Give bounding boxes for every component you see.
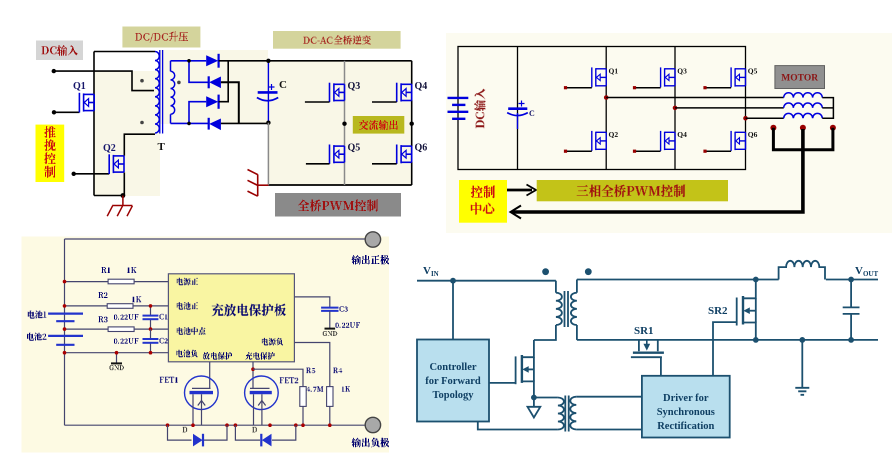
wire diode loop 2 — [235, 425, 295, 440]
transistor FET1 — [185, 376, 219, 410]
wire bridge bottom rail — [268, 184, 411, 186]
node motor terminal 3 — [830, 125, 836, 131]
node bottom rail x=227 — [225, 423, 229, 427]
gate transformer core — [565, 396, 568, 432]
svg-text:Q6: Q6 — [415, 143, 428, 154]
label text GND b — [323, 331, 338, 336]
terminal output negative — [365, 417, 380, 432]
transistor transistor Q5 — [731, 67, 745, 87]
node source junction — [531, 395, 537, 401]
label box MOTOR — [775, 66, 825, 89]
node SR2 source — [753, 337, 759, 343]
svg-text:Q1: Q1 — [73, 81, 86, 92]
wire source to gate transformer — [534, 397, 558, 399]
node secondary top junction — [187, 59, 191, 63]
label text FET2 — [280, 377, 299, 383]
node ground tap — [799, 337, 805, 343]
ground at bridge — [248, 170, 269, 197]
label text R5 — [306, 368, 315, 374]
svg-text:T: T — [158, 141, 166, 153]
wire inductor to vout — [826, 279, 878, 281]
background pale fill rectifier area — [160, 50, 268, 124]
wire bridge right edge — [411, 61, 413, 185]
label text R2 — [99, 292, 108, 298]
label text 充放电保护板 — [212, 304, 286, 317]
resistor R1 — [108, 279, 134, 284]
wire bottom ground node — [94, 195, 124, 197]
block Controller for Forward Topology — [417, 340, 489, 422]
resistor R3 — [108, 327, 134, 332]
transformer T secondary winding — [170, 61, 172, 72]
wire charge gate — [252, 362, 254, 388]
wire D2 output down — [221, 82, 239, 123]
label text C2 — [160, 338, 169, 344]
transistor FET2 — [245, 376, 279, 410]
diode D4 — [209, 119, 221, 131]
wire leg B — [674, 47, 676, 170]
svg-text:Q4: Q4 — [415, 81, 428, 92]
transistor transistor Q5 — [330, 145, 345, 164]
wire diode loop 1 — [168, 425, 228, 440]
label text D b — [252, 427, 256, 433]
background pale fill motor quadrant — [446, 33, 892, 233]
label box control center — [459, 180, 507, 223]
node R2 left — [63, 304, 67, 308]
wire Q1 gate input — [54, 111, 79, 113]
label text 电池1 — [28, 311, 47, 319]
node GND — [115, 351, 119, 355]
wire board to C3 — [294, 297, 329, 307]
node bottom rail x=167.5 — [166, 423, 170, 427]
wire R2 row — [65, 305, 169, 307]
label text 0.22UF b — [114, 338, 139, 344]
node R1 left — [63, 280, 67, 284]
node AC out left — [342, 122, 346, 126]
pin label 电池中点 — [177, 327, 206, 335]
battery DC source — [448, 98, 469, 119]
node cap top — [266, 59, 270, 63]
transformer T primary winding — [155, 52, 159, 134]
wire output positive top — [65, 238, 366, 240]
wire gate to R5 — [253, 369, 303, 386]
pin label 电源正 — [177, 278, 198, 286]
gate transformer right winding — [570, 397, 576, 430]
block Driver for Synchronous Rectification — [642, 376, 730, 438]
svg-text:Q2: Q2 — [609, 130, 619, 139]
svg-text:Controller: Controller — [429, 362, 476, 373]
capacitor C2 — [150, 329, 152, 353]
transistor transistor Q3 — [661, 67, 675, 87]
battery 1 — [48, 314, 83, 322]
label text 制 — [45, 166, 56, 178]
label text 4.7M — [306, 386, 323, 392]
transistor transistor Q1 — [592, 67, 606, 87]
label text 交流输出 — [359, 120, 398, 130]
svg-text:Q2: Q2 — [103, 143, 116, 154]
capacitor plus — [519, 101, 525, 107]
label text DC输入 vertical — [474, 89, 486, 129]
label text R1 — [102, 267, 111, 273]
wire outer rectangle — [458, 47, 746, 170]
svg-text:Q1: Q1 — [609, 67, 619, 76]
label box full bridge PWM control — [275, 193, 401, 217]
node phase C — [743, 116, 748, 121]
svg-text:Synchronous: Synchronous — [657, 407, 715, 418]
svg-text:Rectification: Rectification — [657, 421, 714, 432]
background pale fill push-pull loop — [94, 71, 160, 196]
phase dot primary bottom — [140, 121, 144, 125]
transistor SR2 — [737, 280, 756, 340]
wire Q2 drain to primary bottom — [124, 134, 155, 156]
label text R3 — [99, 316, 108, 322]
label box DC/DC boost — [122, 27, 200, 48]
wire R4 down — [329, 406, 331, 425]
capacitor C curved plate — [507, 113, 528, 116]
label text 0.22UF c — [336, 322, 361, 328]
node vout cap top — [848, 277, 854, 283]
wire diode D2 feed — [189, 61, 209, 83]
terminal output positive — [365, 232, 380, 247]
transistor transistor Q4 — [397, 83, 412, 102]
arrowhead feedback — [511, 206, 522, 219]
wire top rail to transformer — [94, 51, 155, 53]
node DC+ input — [52, 69, 56, 73]
wire R3 row — [65, 328, 169, 330]
node R3 left — [63, 327, 67, 331]
wire motor star point — [822, 98, 833, 119]
svg-text:MOTOR: MOTOR — [781, 74, 818, 84]
node C1 top — [149, 304, 153, 308]
label text 控制 — [471, 186, 495, 199]
wire left rail — [93, 52, 95, 196]
svg-text:Q6: Q6 — [748, 130, 758, 139]
transformer core — [565, 291, 569, 327]
wire output negative bottom — [65, 424, 366, 426]
label text 三相全桥PWM控制 — [577, 185, 686, 198]
transformer secondary top lead — [576, 280, 578, 293]
phase dot secondary — [585, 268, 592, 275]
label text 控 — [45, 152, 56, 164]
svg-text:VOUT: VOUT — [855, 265, 878, 278]
wire R1 row — [65, 281, 169, 283]
node cap bottom — [266, 121, 270, 125]
arrowhead control to PWM — [527, 185, 537, 196]
resistor R4 — [327, 387, 333, 407]
wire Q2 source down — [123, 172, 125, 195]
svg-text:for Forward: for Forward — [425, 376, 481, 387]
node phase A — [604, 95, 609, 100]
node controller tap — [450, 278, 456, 284]
svg-text:Q3: Q3 — [677, 67, 687, 76]
transistor transistor Q1 — [79, 93, 94, 113]
capacitor C plate — [508, 107, 527, 110]
wire motor terminal bracket — [773, 128, 833, 150]
pin label 电源负 — [262, 338, 283, 346]
svg-text:VIN: VIN — [423, 265, 439, 278]
node bottom rail x=329.8 — [328, 423, 332, 427]
label text FET1 — [160, 377, 178, 383]
capacitor C plus sign — [269, 84, 275, 90]
wire gate transformer return — [478, 422, 558, 430]
inductor output — [779, 261, 825, 280]
label text 1K a — [127, 267, 136, 273]
wire R5 down — [302, 406, 304, 425]
label text 挽 — [45, 139, 56, 151]
svg-text:SR1: SR1 — [634, 325, 654, 337]
pin label 充电保护 — [246, 352, 275, 360]
wire capacitor branch leg — [517, 47, 519, 170]
motor winding B — [784, 103, 823, 108]
battery 2 — [48, 336, 83, 345]
transformer secondary bottom lead — [576, 325, 578, 340]
wire phase C — [746, 117, 784, 119]
node phase B — [673, 106, 678, 111]
svg-text:Topology: Topology — [432, 390, 474, 401]
node bottom rail x=235.4 — [234, 423, 238, 427]
transistor transistor Q6 — [397, 145, 412, 164]
transistor transistor Q2 — [109, 154, 124, 174]
node secondary bottom junction — [187, 122, 191, 126]
wire secondary bottom to D4 — [171, 122, 209, 124]
label text 推 — [45, 126, 56, 138]
label box push-pull control — [36, 125, 65, 182]
transformer secondary bottom lead — [170, 114, 172, 123]
ground output — [795, 340, 809, 395]
node Q1 gate input — [52, 110, 56, 114]
label text D a — [183, 427, 188, 433]
wire controller feed — [452, 281, 454, 340]
phase dot primary — [542, 268, 549, 275]
node AC out right — [410, 122, 414, 126]
label text 1K b — [132, 296, 141, 302]
svg-text:Q5: Q5 — [748, 67, 758, 76]
label text 1K c — [342, 386, 350, 392]
node charge gate tap — [251, 367, 255, 371]
background battery protection board panel — [22, 237, 390, 453]
wire C3 to gnd — [329, 311, 331, 328]
wire battery negative row — [65, 352, 169, 354]
wire secondary top rail — [577, 279, 779, 281]
pin label 电池负 — [177, 350, 198, 358]
label text C1 — [160, 314, 168, 320]
svg-text:Q5: Q5 — [348, 143, 361, 154]
wire secondary top to diodes — [171, 60, 207, 62]
transistor transistor Q3 — [330, 83, 345, 102]
wire SR2 gate from driver — [713, 322, 737, 376]
label text 输出正极 — [352, 255, 390, 265]
pin label 放电保护 — [203, 352, 232, 360]
wire control to PWM — [507, 189, 532, 192]
wire capacitor branch — [267, 61, 269, 123]
ground triangle — [528, 398, 541, 418]
wire gate transformer to driver top pin — [576, 396, 642, 398]
node C2 bottom — [149, 351, 153, 355]
phase dot primary top — [140, 79, 144, 83]
label box DC-AC full bridge inverter — [273, 31, 401, 49]
svg-text:SR2: SR2 — [708, 305, 728, 317]
transistor transistor Q6 — [731, 131, 745, 151]
motor winding C — [784, 113, 823, 118]
wire phase B — [675, 107, 784, 109]
phase dot secondary — [177, 81, 181, 85]
transistor transistor Q2 — [592, 131, 606, 151]
capacitor C1 — [150, 306, 152, 329]
label text DC输入 — [42, 45, 78, 56]
wire SR1 gate to driver — [660, 357, 662, 376]
transistor transistor Q4 — [661, 131, 675, 151]
node bottom rail x=193 — [191, 423, 195, 427]
node Q2 gate input — [72, 172, 76, 176]
gate transformer left winding — [558, 398, 564, 430]
wire bridge left edge lower — [267, 123, 269, 185]
capacitor output — [843, 280, 860, 340]
transformer secondary winding — [571, 293, 577, 325]
background pale fill full-bridge area — [268, 61, 412, 185]
node motor terminal 1 — [770, 125, 776, 131]
wire D4 output to bridge — [221, 122, 269, 124]
svg-text:Driver for: Driver for — [663, 393, 709, 404]
label box AC output — [353, 116, 405, 134]
label text 中心 — [471, 202, 495, 215]
label text GND a — [110, 365, 125, 370]
wire leg A — [605, 47, 607, 170]
transistor forward switch — [516, 340, 534, 398]
capacitor C3 — [321, 308, 338, 311]
svg-text:Q4: Q4 — [677, 130, 687, 139]
node motor terminal 2 — [800, 125, 806, 131]
node batt neg left — [63, 351, 67, 355]
wire D3 output up — [219, 61, 229, 102]
diode D discharge — [193, 434, 203, 447]
resistor R2 — [107, 304, 133, 309]
capacitor C plate bottom curved — [257, 98, 278, 101]
node bottom rail x=270 — [268, 423, 272, 427]
diode D charge — [262, 434, 272, 447]
label text 全桥PWM控制 — [298, 200, 378, 212]
wire controller gate — [489, 382, 516, 384]
diode D3 — [206, 96, 218, 107]
label box DC input — [36, 41, 83, 61]
diode D1 — [206, 55, 218, 66]
svg-text:C: C — [279, 79, 287, 91]
wire gate transformer to driver bottom pin — [576, 429, 642, 431]
pin label 电池正 — [177, 302, 198, 310]
node SR2 drain — [753, 277, 759, 283]
ground under Q2 — [107, 196, 132, 217]
node C1 bottom — [149, 327, 153, 331]
wire Q2 gate input — [74, 173, 110, 175]
label text DC-AC全桥逆变 — [303, 35, 371, 45]
node bottom rail x=303 — [301, 423, 305, 427]
wire phase A — [606, 97, 784, 99]
label text DC/DC升压 — [135, 32, 188, 43]
capacitor blue lead — [517, 113, 519, 129]
wire DC+ input to center tap — [54, 71, 154, 91]
resistor R5 — [300, 387, 306, 407]
ground C3 — [325, 328, 336, 330]
label box three-phase PWM control — [537, 180, 728, 201]
wire left rail — [64, 239, 66, 425]
label text R4 — [333, 368, 342, 374]
ground GND stub — [116, 353, 118, 364]
transformer primary winding — [556, 293, 562, 325]
node bottom rail x=295.8 — [294, 423, 298, 427]
wire power negative to R4 — [294, 343, 329, 387]
wire bridge center leg — [344, 61, 346, 185]
node ground junction — [121, 193, 126, 198]
IC battery protection board — [168, 274, 294, 362]
label text 0.22UF a — [114, 314, 139, 320]
transformer T core — [160, 50, 163, 134]
diode D2 — [209, 77, 221, 89]
motor winding A — [784, 93, 823, 98]
label text C3 — [340, 306, 349, 312]
capacitor C plate top — [258, 91, 278, 94]
wire diode D3 feed — [189, 102, 206, 124]
wire discharge gate — [209, 362, 211, 388]
svg-text:C: C — [529, 109, 535, 118]
transformer primary lead — [555, 281, 557, 293]
wire VIN top — [417, 280, 556, 282]
label text 输出负极 — [352, 438, 390, 448]
node cap bottom — [848, 337, 854, 343]
wire SR rail — [577, 339, 878, 341]
wire feedback to control center — [512, 129, 803, 212]
svg-text:Q3: Q3 — [348, 81, 361, 92]
label text 电池2 — [27, 333, 47, 341]
transistor SR1 — [631, 340, 664, 357]
wire D1 output top rail — [219, 60, 412, 62]
transformer primary bottom lead — [534, 325, 556, 340]
